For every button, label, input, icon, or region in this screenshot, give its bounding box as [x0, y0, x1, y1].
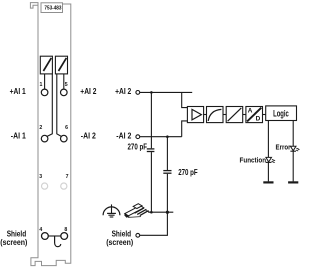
node cap1 top: [150, 91, 153, 94]
ground error: [288, 181, 298, 183]
terminal 2: [41, 135, 48, 142]
svg-text:Logic: Logic: [273, 109, 289, 119]
wire cap2 branch lower: [166, 174, 168, 212]
LED function: [266, 157, 276, 163]
svg-text:1: 1: [40, 82, 43, 88]
capacitor C2 270pF: [163, 171, 171, 174]
svg-text:270 pF: 270 pF: [128, 142, 148, 151]
wire jumper 1-2: [47, 74, 52, 136]
svg-text:A: A: [248, 107, 253, 114]
wire function drop: [267, 121, 269, 181]
fuse box channel 2: [55, 56, 67, 74]
svg-text:D: D: [256, 116, 261, 123]
svg-text:(screen): (screen): [106, 237, 133, 247]
wire box1 to terminal 1: [44, 74, 46, 89]
terminal 8: [61, 233, 68, 240]
terminal 1: [41, 89, 48, 96]
A/D converter box: [246, 107, 263, 123]
svg-text:Function: Function: [240, 156, 267, 165]
svg-text:Error: Error: [276, 143, 291, 152]
wire isolation-AD: [243, 114, 246, 116]
earth symbol in circle: [103, 204, 120, 217]
filter box: [207, 107, 224, 123]
isolation box: [226, 107, 243, 123]
svg-text:753-483: 753-483: [44, 6, 62, 12]
svg-text:270 pF: 270 pF: [178, 168, 198, 177]
fuse box channel 1: [40, 56, 52, 74]
svg-text:+AI 2: +AI 2: [80, 86, 96, 96]
node cap1 bus: [150, 211, 153, 214]
svg-text:2: 2: [39, 125, 42, 131]
terminal 3 unused: [42, 183, 48, 189]
terminal Shield schematic: [136, 233, 140, 237]
svg-text:-AI 1: -AI 1: [11, 130, 26, 140]
svg-text:3: 3: [39, 174, 42, 180]
svg-text:+AI 1: +AI 1: [10, 86, 26, 96]
node cap2 top: [166, 135, 169, 138]
wire -AI 2: [140, 136, 182, 138]
wire +AI 2: [140, 91, 192, 93]
wire jumper 5-6: [57, 74, 62, 136]
terminal 7 unused: [61, 183, 67, 189]
terminal 4: [42, 233, 49, 240]
wire -AI 2 step to amp: [182, 121, 188, 137]
wire box2 to terminal 5: [63, 74, 65, 89]
svg-text:+AI 2: +AI 2: [115, 86, 131, 96]
svg-text:-AI 2: -AI 2: [81, 130, 96, 140]
svg-text:6: 6: [65, 125, 68, 131]
svg-text:4: 4: [39, 227, 42, 233]
wire shield to bus: [140, 212, 168, 235]
svg-text:5: 5: [65, 82, 68, 88]
wire error drop: [292, 121, 294, 181]
wire AD-logic: [263, 114, 266, 116]
svg-text:8: 8: [64, 227, 67, 233]
shield bus: [148, 211, 173, 213]
logic box: [266, 106, 297, 121]
label box 753-483: [41, 3, 63, 13]
capacitor C1 270pF: [147, 149, 155, 152]
terminal +AI 2 schematic: [136, 91, 140, 95]
svg-text:-AI 2: -AI 2: [116, 130, 131, 140]
module outline: [30, 3, 70, 266]
wire cap1 branch upper: [150, 92, 152, 148]
terminal 5: [61, 89, 68, 96]
svg-text:(screen): (screen): [0, 237, 27, 247]
wire amp-filter: [204, 114, 207, 116]
wire cap1 branch lower: [150, 152, 152, 212]
shield hook: [55, 236, 61, 247]
ground function: [263, 181, 273, 183]
node shield junction: [166, 211, 169, 214]
wire shield link 4-8: [48, 235, 61, 237]
terminal 6: [61, 135, 68, 142]
op-amp box: [187, 107, 203, 123]
wire filter-isolation: [223, 114, 226, 116]
svg-text:7: 7: [66, 174, 69, 180]
shield clamp symbol: [124, 204, 149, 218]
terminal -AI 2 schematic: [136, 135, 140, 139]
wire cap2 branch upper: [166, 137, 168, 170]
LED error: [290, 146, 300, 151]
wire +AI 2 step to amp: [182, 92, 188, 107]
